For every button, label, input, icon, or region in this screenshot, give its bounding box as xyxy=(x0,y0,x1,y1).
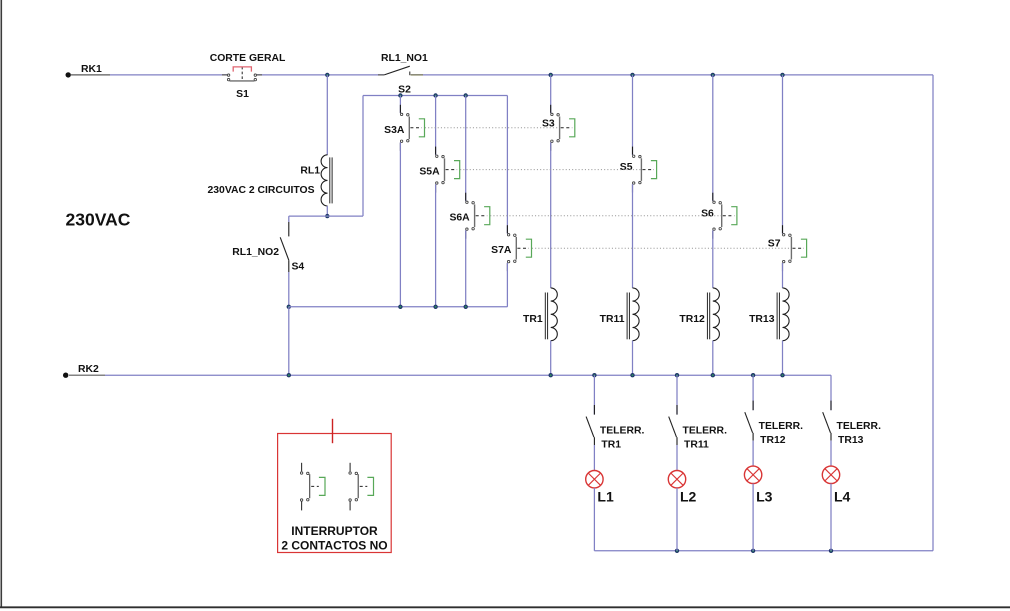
node junction S4/bus xyxy=(287,305,291,309)
svg-text:TR1: TR1 xyxy=(601,440,621,451)
svg-text:TELERR.: TELERR. xyxy=(683,426,728,437)
wire control bus top xyxy=(363,95,507,97)
svg-text:S4: S4 xyxy=(292,262,305,273)
pushbutton S7A xyxy=(491,225,531,271)
node junction RK2/TR11 xyxy=(630,373,634,377)
pushbutton S3A xyxy=(384,105,424,151)
wire L1 mid xyxy=(593,437,595,470)
node bus-bottom junction 3 xyxy=(464,305,468,309)
node bus-bottom junction 2 xyxy=(433,305,437,309)
wire column S5 lower xyxy=(632,341,634,376)
svg-text:S1: S1 xyxy=(236,89,249,100)
wire control bus bottom xyxy=(289,306,508,308)
wire column S5 mid xyxy=(632,184,634,288)
pushbutton S3 xyxy=(542,105,575,151)
wire column S3A upper xyxy=(399,96,401,114)
node RK2 terminal xyxy=(63,364,99,378)
mech link S6A-S6 xyxy=(490,215,721,217)
node junction RL1 bottom xyxy=(325,214,329,218)
svg-text:2 CONTACTOS NO: 2 CONTACTOS NO xyxy=(281,538,387,552)
wire L3 upper xyxy=(752,375,754,410)
wire column S6A upper xyxy=(465,96,467,202)
telerupter switch TELERR. TR13 xyxy=(823,412,881,446)
svg-text:TR11: TR11 xyxy=(600,314,625,325)
svg-text:RK1: RK1 xyxy=(81,64,102,75)
wire RL1 bottom xyxy=(326,206,328,216)
net label 230VAC xyxy=(66,210,131,230)
legend pushbutton 2 xyxy=(349,463,374,511)
wire RL1-bus link xyxy=(289,215,363,217)
wire L3 mid xyxy=(752,433,754,466)
svg-text:RL1: RL1 xyxy=(300,166,320,177)
pushbutton S5 xyxy=(620,147,657,193)
wire column S3 upper xyxy=(550,75,552,113)
svg-text:TR1: TR1 xyxy=(523,314,543,325)
wire column S5 upper xyxy=(632,75,634,155)
wire L1 upper xyxy=(593,375,595,414)
mech link S7A-S7 xyxy=(532,247,791,249)
wire RL1 column xyxy=(326,75,328,155)
node junction RK2/TR12 xyxy=(711,373,715,377)
svg-text:INTERRUPTOR: INTERRUPTOR xyxy=(291,524,378,538)
mech link S5A-S5 xyxy=(460,169,641,171)
wire column S6 mid xyxy=(712,230,714,288)
wire L3 lower xyxy=(752,484,754,551)
wire S4 to RK2 xyxy=(288,307,290,375)
wire L2 upper xyxy=(676,375,678,414)
node junction RK2/L4 branch xyxy=(0,0,1,1)
wire L2 mid xyxy=(676,437,678,470)
wire bus left drop xyxy=(362,96,364,217)
transformer coil TR11 xyxy=(600,288,639,341)
node junction RK2/TR13 xyxy=(780,373,784,377)
wire column S7 mid xyxy=(782,263,784,288)
wire L1 lower xyxy=(593,488,595,551)
svg-text:L1: L1 xyxy=(597,489,614,505)
svg-text:L2: L2 xyxy=(680,489,697,505)
svg-text:TR13: TR13 xyxy=(838,435,864,446)
svg-text:S5: S5 xyxy=(620,162,633,173)
wire column S7A lower xyxy=(506,263,508,307)
svg-text:230VAC 2 CIRCUITOS: 230VAC 2 CIRCUITOS xyxy=(207,185,314,196)
svg-text:S7A: S7A xyxy=(491,245,512,256)
svg-text:RL1_NO2: RL1_NO2 xyxy=(232,247,279,258)
lamp L3 xyxy=(744,466,772,504)
svg-text:TR12: TR12 xyxy=(760,435,786,446)
svg-text:230VAC: 230VAC xyxy=(66,210,131,230)
svg-text:RK2: RK2 xyxy=(78,364,99,375)
transformer coil TR13 xyxy=(749,288,789,341)
relay coil RL1 230VAC 2 CIRCUITOS xyxy=(207,155,332,206)
svg-text:TELERR.: TELERR. xyxy=(837,421,882,432)
telerupter switch TELERR. TR11 xyxy=(669,417,727,451)
svg-text:RL1_NO1: RL1_NO1 xyxy=(381,53,428,64)
node lamp-bus junction 4 xyxy=(829,549,833,553)
svg-text:TELERR.: TELERR. xyxy=(600,426,645,437)
wire L4 lower xyxy=(830,484,832,551)
node junction RK2/L3 branch xyxy=(751,373,755,377)
wire RK1 rail xyxy=(71,74,933,76)
wire column S7A upper xyxy=(506,96,508,234)
node junction RK1/RL1 xyxy=(325,73,329,77)
lamp L1 xyxy=(586,471,614,505)
wire column S3 lower xyxy=(550,341,552,376)
transformer coil TR1 xyxy=(523,288,557,341)
svg-text:L4: L4 xyxy=(834,489,851,505)
mech link S3A-S3 xyxy=(425,127,559,129)
telerupter switch TELERR. TR1 xyxy=(586,417,644,451)
node junction RK1/S7 xyxy=(780,73,784,77)
svg-text:S6A: S6A xyxy=(449,213,470,224)
switch S2 RL1_NO1 xyxy=(378,53,428,96)
wire L4 upper xyxy=(830,375,832,410)
wire right edge xyxy=(932,75,934,551)
wire column S7 lower xyxy=(782,341,784,376)
wire L4 mid xyxy=(830,433,832,466)
legend pushbutton 1 xyxy=(300,463,325,511)
node lamp-bus junction 2 xyxy=(675,549,679,553)
pushbutton S5A xyxy=(419,147,459,193)
svg-text:S5A: S5A xyxy=(419,167,440,178)
svg-text:TR11: TR11 xyxy=(684,440,709,451)
wire column S3 mid xyxy=(550,142,552,288)
node lamp-bus junction 3 xyxy=(751,549,755,553)
node junction RK2/L1 branch xyxy=(592,373,596,377)
pushbutton S6A xyxy=(449,193,489,239)
node junction RK2/TR1 xyxy=(549,373,553,377)
svg-text:TELERR.: TELERR. xyxy=(759,421,804,432)
wire column S5A lower xyxy=(435,184,437,307)
pushbutton S6 xyxy=(701,193,737,239)
wire L2 lower xyxy=(676,488,678,551)
wire column S6A lower xyxy=(465,230,467,306)
node junction RK2/L2 branch xyxy=(675,373,679,377)
wire column S7 upper xyxy=(782,75,784,234)
wire column S3A lower xyxy=(399,142,401,306)
svg-text:TR13: TR13 xyxy=(749,314,775,325)
wire RK2 rail xyxy=(69,374,831,376)
node junction RK1/S5 xyxy=(630,73,634,77)
legend box INTERRUPTOR 2 CONTACTOS NO xyxy=(278,419,392,553)
node junction S4/RK2 xyxy=(287,373,291,377)
node bus-bottom junction 1 xyxy=(398,305,402,309)
lamp L2 xyxy=(668,471,696,505)
svg-text:CORTE GERAL: CORTE GERAL xyxy=(210,53,286,64)
node bus-top junction 1 xyxy=(398,93,402,97)
node bus-top junction 3 xyxy=(464,93,468,97)
svg-text:S3A: S3A xyxy=(384,125,405,136)
wire column S5A upper xyxy=(435,96,437,156)
pushbutton S7 xyxy=(768,225,807,271)
wire column S6 lower xyxy=(712,341,714,376)
node junction RK1/S6 xyxy=(711,73,715,77)
transformer coil TR12 xyxy=(679,288,719,341)
svg-text:S6: S6 xyxy=(701,209,714,220)
wire column S6 upper xyxy=(712,75,714,201)
svg-text:TR12: TR12 xyxy=(679,314,705,325)
telerupter switch TELERR. TR12 xyxy=(745,412,803,446)
switch S4 RL1_NO2 xyxy=(232,216,304,307)
lamp L4 xyxy=(822,466,850,504)
node RK1 terminal xyxy=(66,64,103,78)
pushbutton S1 CORTE GERAL xyxy=(210,53,286,100)
node bus-top junction 2 xyxy=(433,93,437,97)
node junction RK1/S3 xyxy=(549,73,553,77)
wire lamp bus xyxy=(594,550,933,552)
svg-text:L3: L3 xyxy=(756,489,773,505)
